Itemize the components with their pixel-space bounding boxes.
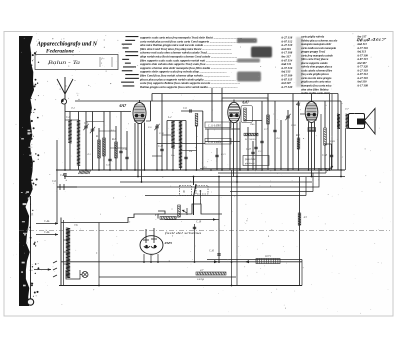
svg-text:Apparecchiografo und N: Apparecchiografo und N [36,41,97,48]
wire mid horizontal [157,143,205,145]
resistor R7 [298,101,300,170]
resistor on right wall [298,213,301,225]
dark scan artifact band on left edge [19,36,34,306]
wire [329,94,331,170]
antenna coupling coil [61,99,66,104]
svg-text:C.18: C.18 [322,154,328,157]
arrow junction [327,166,333,171]
svg-text:filtro carta Trasf placca: filtro carta Trasf placca [301,58,329,61]
wire link [86,121,104,123]
wire nest v1 [331,94,333,169]
resistor 4.7 [196,272,226,275]
resistor R5 body [244,133,258,136]
svg-text:carta griglia valvola: carta griglia valvola [301,36,325,39]
parts list table middle column [300,35,368,88]
svg-text:carta zoccolo mica gruppo: carta zoccolo mica gruppo [301,77,332,80]
tube V3 top cap wire [311,94,313,102]
wire [126,131,128,170]
svg-text:griglia zoccolo carta mica: griglia zoccolo carta mica [300,81,331,84]
svg-text:25Z5: 25Z5 [164,241,173,245]
capacitor C9 on grid wire [181,110,203,112]
capacitor C3 [108,159,111,160]
phono jack label box [243,156,269,166]
C6 capacitor mid left [56,140,58,223]
wire [337,94,339,171]
svg-text:B.7 50000: B.7 50000 [245,138,256,141]
wire vertical x219 [218,177,220,262]
wire nest h5 [145,195,306,197]
svg-text:presa fono: presa fono [245,158,257,161]
cathode resistor [324,128,327,145]
svg-text:7.7: 7.7 [345,108,349,111]
lower box bottom edge [59,285,302,287]
wire [255,121,257,171]
title box [35,55,118,70]
svg-text:manopola manopola elettr: manopola manopola elettr [301,43,332,46]
resistor R2 [103,138,106,156]
wire nest h2 [218,172,326,174]
tube V2 6B7 [228,102,240,122]
svg-text:C.AL: C.AL [44,231,50,234]
wire [205,128,240,130]
svg-text:Balun - Ta: Balun - Ta [48,61,81,66]
wire [103,112,105,171]
tube V3 base pins blob [308,128,316,132]
svg-text:0.1: 0.1 [111,129,114,132]
wire [211,88,213,122]
lower box left wall [60,218,62,286]
wire above tube2 [222,97,268,99]
output transformer primary winding [337,114,340,129]
svg-text:C.16: C.16 [209,250,215,253]
antenna transformer primary [68,120,71,143]
power transformer winding [66,228,70,278]
svg-text:C.14: C.14 [258,150,263,153]
switch box C [196,186,208,195]
lower box inner right wall [207,259,302,261]
wire link [99,130,116,132]
antenna transformer secondary [77,120,80,166]
wire [292,94,294,171]
svg-text:Bobina placca schermo zoccolo: Bobina placca schermo zoccolo [300,39,338,42]
wire [156,124,158,170]
oscillator coil L3 [179,121,182,168]
svg-text:freq scala griglia placca: freq scala griglia placca [301,73,329,76]
terminal arrow CAL 1 [36,223,58,225]
wire nest v2 [325,168,327,173]
tube V1 top cap wire [139,100,141,103]
wire nest v3 [318,168,320,187]
wire [120,112,122,171]
svg-text:placca supporto catodo: placca supporto catodo [300,62,328,65]
switch box R [180,186,192,196]
svg-text:Bobina gruppo carta supporto f: Bobina gruppo carta supporto fissa carta… [139,85,238,89]
wire nest h3 [60,186,319,188]
volume potentiometer [178,205,181,217]
pilot lamp [82,272,88,278]
capacitor trimmer [285,114,290,120]
scan noise specks [66,45,375,291]
speaker feed wire [340,101,342,177]
wire nest h1 [200,167,332,169]
wire link [181,150,197,152]
capacitor C10 [160,149,163,150]
wire link [162,134,173,136]
wire third bottom bus [120,181,312,183]
svg-text:C.13: C.13 [221,153,226,156]
output transformer secondary winding [346,114,349,129]
tube V3 43 [305,102,318,123]
bus end capacitor top left [57,186,77,188]
antenna [57,77,73,99]
resistor R1 [98,128,100,170]
resistor R5 [247,127,249,170]
capacitor C8 [63,174,66,175]
wire [193,177,195,186]
plumb bob circle [27,299,33,305]
resistor R3 [195,114,198,127]
wire [216,148,218,170]
plumb line [30,196,32,299]
svg-text:R.2: R.2 [111,138,116,141]
wire nest h4 [230,191,313,193]
wire verticals x231 x237 [231,170,233,286]
svg-text:A-17 308: A-17 308 [356,83,368,87]
svg-text:fusil del schema: fusil del schema [165,231,201,235]
dense smudge in table [251,47,272,58]
wire [261,101,263,170]
wire [244,120,262,122]
wire tube1 plate [150,101,152,121]
long wire y262 [61,261,302,263]
fuse coil horizontal [160,217,177,220]
oscillator coil L2 [171,121,174,149]
capacitor C16 body [217,254,220,255]
lower box top edge stepped [61,204,222,223]
wire upper bus [75,100,341,102]
svg-text:C.AL: C.AL [44,220,50,223]
chassis dash-dot line [19,230,390,232]
parts list table left column [139,36,293,89]
arrowheads on 110V line [214,260,218,263]
speaker horn [365,109,376,135]
svg-text:valvola ohm gruppo placca: valvola ohm gruppo placca [301,66,333,69]
IF transformer label box 1 [205,122,231,128]
grid resistor box [241,106,253,123]
wire link [110,147,127,149]
wire second bottom bus [64,176,345,178]
ground hatch under bus [79,171,91,175]
switch arrows left [34,269,51,271]
striped label 110 VOLTS [256,259,280,264]
rectifier leads [143,254,145,262]
svg-text:giradischi: giradischi [245,162,255,165]
wire nest v5 [305,177,307,196]
svg-text:7.1: 7.1 [71,106,75,110]
svg-text:C.11 0.0005: C.11 0.0005 [208,124,222,127]
IF transformer label box 2 [205,139,231,145]
wire from switch to x219 [165,219,219,221]
wire antenna stem [64,104,66,170]
svg-text:4.1: 4.1 [295,103,301,107]
wire below transformer [345,129,347,171]
transformer taps [64,239,69,241]
wire [109,112,111,171]
svg-text:C.8: C.8 [60,174,65,177]
svg-text:R.1: R.1 [95,135,100,138]
wire [274,101,276,170]
svg-text:C.1B: C.1B [330,140,335,143]
wire [185,121,187,171]
svg-text:0.0704: 0.0704 [197,278,205,281]
rectifier tube 25Z5 [140,228,163,254]
svg-text:C.6: C.6 [52,180,56,183]
svg-text:C.17: C.17 [246,148,252,151]
wire nest v4 [312,173,314,192]
wire [221,88,223,170]
wire stub above box [200,190,202,204]
wire into tube3 grid [300,113,306,115]
svg-text:C.12: C.12 [158,145,164,148]
svg-text:scala catodo schermo filtro: scala catodo schermo filtro [300,69,333,72]
svg-text:A-77 320: A-77 320 [280,85,293,89]
tube V1 6A7 [133,103,146,124]
wire [115,126,117,170]
svg-text:C.19: C.19 [196,221,202,224]
svg-text:110 V: 110 V [265,255,271,258]
svg-text:R.9: R.9 [295,134,300,137]
svg-text:carta freq manopola catodo: carta freq manopola catodo [301,54,333,57]
svg-text:6.87: 6.87 [243,101,250,105]
tuning capacitor CV1 [85,112,87,171]
svg-text:L.2: L.2 [167,116,172,119]
wire link [152,155,162,157]
svg-text:Federazione: Federazione [46,50,75,55]
terminal arrow CAL 2 [36,234,58,236]
tube V2 top cap wire [233,100,235,103]
tube V2 leads [229,122,231,170]
tone switch [158,211,165,219]
tube V3 leads [308,122,310,170]
wire [161,94,163,171]
wire [320,114,322,170]
svg-text:7.6: 7.6 [74,224,78,227]
svg-text:gruppo gruppo Trasf: gruppo gruppo Trasf [300,51,326,54]
wire left stage top [65,111,131,113]
pilot lamp bracket [66,270,80,279]
table row number marks [121,36,139,87]
extra table rows right [301,88,331,96]
wire [280,120,282,170]
svg-text:carta media zoccolo manopola: carta media zoccolo manopola [301,47,337,50]
wire main ground bus [56,169,345,171]
wire [151,94,153,102]
tuning capacitor CV2 [92,112,94,171]
wire [98,223,100,286]
svg-text:C.10: C.10 [159,132,164,135]
speaker driver box [349,114,365,129]
wire y277 [99,276,236,278]
wire top bus B+ [152,93,338,95]
svg-text:6A7: 6A7 [120,103,128,108]
junction dots on buses [64,169,342,286]
svg-text:C.2O: C.2O [291,124,296,127]
capacitor C4 [119,151,122,152]
lower box right wall [299,177,301,286]
wire [202,111,204,170]
switch arm [194,184,197,197]
tube V1 leads [134,123,136,170]
resistor R6 [267,94,269,171]
